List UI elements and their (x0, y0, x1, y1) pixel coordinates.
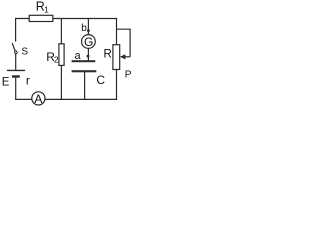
ammeter A (32, 92, 45, 106)
svg-text:2: 2 (54, 55, 59, 65)
battery E (7, 70, 25, 77)
wire slider branch step (117, 29, 131, 57)
svg-text:1: 1 (44, 4, 49, 14)
wire left vertical upper (corner to switch) (15, 18, 17, 42)
node a (87, 55, 90, 58)
wire right vertical (116, 18, 118, 100)
rheostat R (113, 45, 120, 70)
node b (87, 29, 90, 32)
svg-text:P: P (125, 70, 132, 81)
svg-text:R: R (104, 48, 112, 60)
svg-text:S: S (21, 47, 28, 58)
wire battery to bottom-left corner (15, 78, 17, 100)
wire galvanometer branch vertical (87, 19, 89, 61)
galvanometer G (82, 35, 96, 49)
svg-text:r: r (26, 73, 30, 87)
switch S (12, 43, 17, 54)
svg-text:G: G (84, 35, 93, 49)
svg-text:b: b (81, 23, 87, 34)
resistor R2 (59, 44, 64, 66)
wire capacitor to bottom (84, 72, 86, 100)
wire left vertical lower (switch to battery to bottom) (15, 54, 17, 70)
slider P arrow (120, 54, 130, 59)
svg-text:C: C (96, 73, 105, 87)
wire bottom horizontal (15, 98, 117, 100)
wire R2 branch vertical (60, 19, 62, 100)
svg-text:A: A (34, 92, 42, 106)
resistor R1 (29, 15, 53, 21)
capacitor C (72, 60, 97, 72)
svg-text:E: E (2, 77, 10, 89)
wire top horizontal (15, 18, 117, 20)
